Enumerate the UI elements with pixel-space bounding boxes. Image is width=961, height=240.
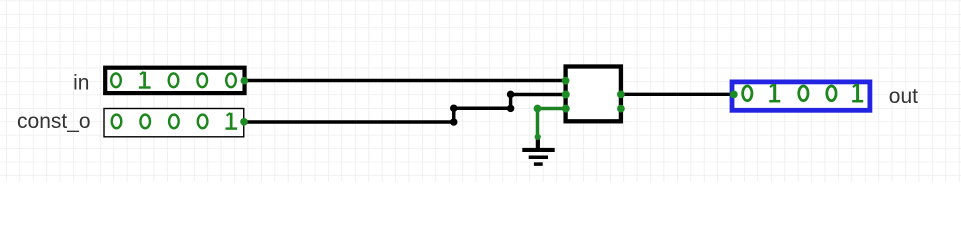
svg-text:out: out: [889, 85, 918, 108]
svg-text:in: in: [73, 71, 89, 94]
svg-text:const_o: const_o: [17, 110, 91, 133]
